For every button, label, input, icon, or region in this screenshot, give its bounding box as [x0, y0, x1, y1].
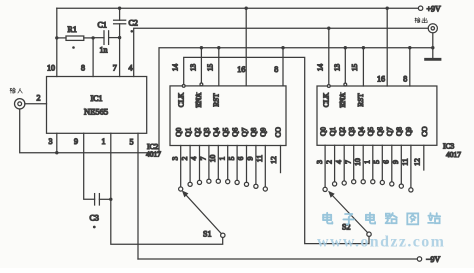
- svg-text:10: 10: [47, 64, 55, 73]
- svg-text:CO: CO: [273, 126, 282, 137]
- capacitor C2: [114, 8, 126, 37]
- wire IC2 CO stub pin 12: [280, 146, 282, 173]
- wire output jack shield to ground bar: [432, 33, 434, 59]
- svg-text:Q3: Q3: [202, 127, 211, 136]
- IC2 output labels Q0-Q9: [174, 127, 268, 136]
- +9V terminal: [418, 6, 422, 10]
- svg-text:ENA: ENA: [339, 92, 347, 108]
- wire IC3 pin 14 stub: [328, 28, 330, 86]
- IC2 ENA input bubble: [200, 83, 203, 86]
- svg-text:Q6: Q6: [230, 127, 239, 136]
- svg-text:3: 3: [49, 137, 53, 146]
- wire IC2 pin 15 stub: [218, 48, 220, 86]
- wire IC3 pin 13 stub: [344, 48, 346, 86]
- svg-text:7: 7: [113, 64, 117, 73]
- node C3 / pin1 / S1 junction: [109, 198, 112, 201]
- node ground net at IC2 pin15: [217, 46, 220, 49]
- svg-text:15: 15: [207, 64, 215, 72]
- svg-text:Q9: Q9: [404, 127, 413, 136]
- svg-text:Q2: Q2: [193, 127, 202, 136]
- input jack outer ring: [15, 99, 25, 109]
- input jack centre pin: [18, 102, 22, 106]
- wire IC2 pin 16 stub: [245, 8, 247, 86]
- wire IC3 pin 16 stub: [386, 8, 388, 86]
- svg-text:3: 3: [315, 160, 324, 164]
- -9V terminal: [417, 257, 421, 261]
- label 输入 (input): [10, 88, 15, 93]
- PLL IC1 NE565 box: [47, 77, 147, 134]
- svg-text:NE565: NE565: [84, 107, 108, 117]
- node shield / ground-net junction: [431, 46, 434, 49]
- wire IC3 pin 15 stub: [362, 48, 364, 86]
- svg-text:Q9: Q9: [259, 127, 268, 136]
- IC2 bottom pin numbers: [170, 155, 264, 163]
- wire left riser from +9V rail to IC1 pin 10: [56, 8, 58, 76]
- svg-text:C1: C1: [98, 21, 107, 30]
- wire input shield down and across (ground line): [20, 109, 159, 153]
- wire IC1 pin 3 stub: [56, 133, 58, 152]
- svg-text:IC1: IC1: [91, 94, 103, 103]
- IC3 ENA input bubble: [344, 83, 347, 86]
- svg-text:4017: 4017: [446, 150, 461, 159]
- wire VCO output net: IC1 pin 4 to output jack and IC3 CLK: [134, 28, 429, 76]
- svg-text:13: 13: [334, 64, 342, 72]
- svg-text:www.ondzz.com: www.ondzz.com: [317, 234, 445, 251]
- switch S1 arm with arrowhead: [182, 190, 222, 233]
- output jack outer ring: [428, 24, 437, 33]
- svg-text:11: 11: [401, 158, 410, 165]
- svg-text:8: 8: [403, 75, 407, 84]
- svg-text:5: 5: [130, 138, 134, 147]
- svg-text:Q6: Q6: [376, 127, 385, 136]
- wire IC1 pin 1 net down and across to S1 wiper: [111, 133, 223, 244]
- node IC3 pin14 junction on VCO line: [327, 27, 330, 30]
- svg-text:1: 1: [363, 160, 372, 164]
- node +9V rail at IC3 pin16: [386, 7, 389, 10]
- wire IC1 pin 7 stub: [119, 38, 121, 77]
- svg-text:C2: C2: [129, 19, 138, 28]
- wire IC2 pin 13 stub: [200, 48, 202, 86]
- node ground net at IC3 pin15: [362, 46, 365, 49]
- svg-text:Q8: Q8: [249, 127, 258, 136]
- wire IC3 pin 8 stub: [409, 48, 411, 86]
- svg-text:Q4: Q4: [212, 127, 221, 136]
- svg-text:Q1: Q1: [328, 127, 337, 136]
- svg-text:12: 12: [413, 158, 422, 166]
- node IC1 pin 3 on ground line: [55, 151, 58, 154]
- asterisk mark under C2: [131, 30, 134, 33]
- svg-text:RST: RST: [357, 93, 365, 107]
- svg-text:Q7: Q7: [240, 127, 249, 136]
- asterisk mark under R1: [72, 46, 75, 49]
- ground bar: [426, 58, 440, 61]
- svg-text:14: 14: [317, 64, 325, 72]
- svg-text:ENA: ENA: [195, 92, 203, 108]
- svg-text:Q7: Q7: [385, 127, 394, 136]
- IC3 output pin stubs and selector contacts: [323, 145, 413, 192]
- node ground net at IC3 pin8: [408, 46, 411, 49]
- resistor R1: [57, 36, 93, 40]
- svg-text:9: 9: [74, 137, 78, 146]
- asterisk mark under C3: [93, 226, 96, 229]
- svg-text:12: 12: [269, 156, 278, 164]
- counter IC3 4017 box: [317, 86, 437, 145]
- wire -9V bottom rail: [138, 258, 417, 260]
- node ground net at IC2 pin8: [281, 46, 284, 49]
- svg-text:Q3: Q3: [347, 127, 356, 136]
- wire IC2 CLK net: pin 14 up, across and down to S2 wiper: [184, 57, 369, 243]
- svg-text:+9V: +9V: [427, 5, 442, 14]
- node C2 top rail junction: [118, 7, 121, 10]
- node C1/C2/pin7 junction: [118, 36, 121, 39]
- watermark 电子电路图站: [323, 213, 440, 225]
- wire IC2 pin 8 stub: [282, 48, 284, 86]
- node +9V rail at IC2 pin16: [245, 7, 248, 10]
- IC3 CLK input bubble: [327, 85, 330, 88]
- switch S1 wiper terminal: [221, 233, 225, 237]
- capacitor C3: [95, 194, 111, 205]
- node R1 left junction: [55, 36, 58, 39]
- capacitor C1: [93, 31, 120, 45]
- svg-text:13: 13: [189, 64, 197, 72]
- switch S2 wiper terminal: [367, 232, 371, 236]
- wire ground net: riser and horizontal run to output jack: [159, 48, 433, 153]
- output jack centre pin: [431, 27, 434, 30]
- wire IC1 pin 5 stub down to -9V rail: [137, 133, 139, 259]
- svg-text:−9V: −9V: [426, 255, 441, 264]
- IC2 CLK input bubble: [182, 85, 185, 88]
- svg-text:Q5: Q5: [221, 127, 230, 136]
- svg-text:3: 3: [170, 156, 179, 160]
- node ground net at IC3 pin13: [344, 46, 347, 49]
- wire IC1 pin 8 stub: [92, 38, 94, 77]
- svg-text:4: 4: [334, 160, 343, 164]
- svg-text:R1: R1: [68, 25, 77, 34]
- label 输出 (output): [415, 18, 420, 23]
- wire IC1 pin 9 stub down to C3: [84, 133, 95, 199]
- IC3 bottom pin numbers: [315, 158, 410, 166]
- svg-text:Q8: Q8: [395, 127, 404, 136]
- svg-text:15: 15: [351, 64, 359, 72]
- svg-text:16: 16: [237, 65, 245, 74]
- svg-text:4017: 4017: [146, 150, 161, 159]
- node R1 right / C1 left / pin 8 junction: [91, 36, 94, 39]
- svg-text:S1: S1: [203, 230, 211, 239]
- svg-text:Q0: Q0: [174, 127, 183, 136]
- svg-text:4: 4: [129, 64, 133, 73]
- switch S2 arm with arrowhead: [328, 191, 368, 233]
- svg-text:C3: C3: [90, 214, 99, 223]
- svg-text:2: 2: [37, 94, 41, 103]
- svg-text:CLK: CLK: [322, 92, 330, 107]
- svg-text:8: 8: [81, 64, 85, 73]
- svg-text:Q5: Q5: [366, 127, 375, 136]
- svg-text:16: 16: [377, 75, 385, 84]
- svg-text:Q0: Q0: [318, 127, 327, 136]
- wire +9V top rail: [57, 7, 419, 9]
- svg-text:Q4: Q4: [357, 127, 366, 136]
- IC2 output pin stubs and selector contacts: [179, 146, 268, 192]
- svg-text:Q2: Q2: [338, 127, 347, 136]
- svg-text:CO: CO: [420, 126, 429, 137]
- svg-text:Q1: Q1: [183, 127, 192, 136]
- svg-text:1: 1: [102, 137, 106, 146]
- svg-text:8: 8: [274, 65, 278, 74]
- node ground net at IC2 pin13: [200, 46, 203, 49]
- svg-text:CLK: CLK: [177, 92, 185, 107]
- wire input jack to IC1 pin 2: [25, 103, 47, 105]
- counter IC2 4017 box: [170, 86, 286, 146]
- svg-text:14: 14: [172, 64, 180, 72]
- wire IC3 CO stub pin 12: [423, 145, 425, 170]
- svg-text:1n: 1n: [100, 46, 108, 55]
- svg-text:RST: RST: [212, 93, 220, 107]
- IC3 output labels Q0-Q9: [318, 127, 413, 136]
